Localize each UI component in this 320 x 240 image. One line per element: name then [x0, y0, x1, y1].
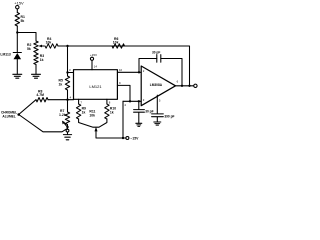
wire to + input — [123, 100, 141, 102]
wiper arrow of R11 — [96, 131, 123, 138]
wire pin 14 — [91, 60, 93, 69]
wire — [16, 26, 18, 52]
wire pin 10 output top — [117, 71, 141, 73]
terminal +15V mid — [90, 57, 93, 60]
resistor R1 — [15, 13, 19, 27]
wire — [123, 137, 126, 139]
wire sensor lower lead — [19, 115, 67, 132]
wire — [16, 59, 18, 74]
node junction inverting input — [138, 71, 140, 73]
resistor R9 — [76, 104, 80, 119]
terminal -15V — [126, 137, 129, 140]
terminal +15V top-left — [16, 6, 19, 9]
svg-text:1k: 1k — [82, 111, 86, 115]
svg-text:10: 10 — [119, 68, 123, 72]
ground — [32, 74, 41, 78]
wiper arrow of R2 — [40, 45, 44, 47]
wire to -15V rail — [122, 101, 124, 138]
diode LM113 — [13, 52, 21, 54]
ground — [154, 122, 161, 125]
resistor R10 — [105, 104, 109, 119]
node junction pin4 — [66, 99, 68, 101]
svg-text:5k: 5k — [21, 19, 25, 23]
wire — [67, 125, 69, 135]
ground — [13, 74, 22, 78]
svg-text:LM113: LM113 — [0, 52, 10, 56]
wire — [17, 33, 36, 42]
svg-text:ALUMEL: ALUMEL — [2, 114, 15, 118]
svg-text:−15V: −15V — [130, 137, 139, 141]
wire feedback top — [112, 46, 190, 86]
resistor R6 — [112, 44, 125, 48]
terminal output — [194, 84, 197, 87]
wire output — [176, 85, 194, 87]
resistor R5 — [65, 76, 69, 90]
svg-text:1k: 1k — [59, 83, 63, 87]
svg-text:10k: 10k — [113, 41, 119, 45]
svg-text:5: 5 — [159, 98, 161, 102]
node A1 junction — [16, 31, 18, 33]
svg-text:9: 9 — [119, 81, 121, 85]
potentiometer R7 — [65, 112, 69, 125]
svg-text:4: 4 — [124, 103, 126, 107]
wire pin 9 output bottom — [117, 85, 130, 101]
wire compensation loop — [139, 59, 182, 86]
svg-text:1k: 1k — [40, 58, 44, 62]
svg-text:LM308A: LM308A — [150, 83, 163, 87]
node junction pin3 — [66, 71, 68, 73]
svg-text:3: 3 — [69, 68, 71, 72]
node sensor junction — [17, 113, 20, 116]
wire pin 7 — [78, 99, 80, 104]
resistor R4 — [45, 44, 58, 48]
wire — [35, 65, 37, 75]
potentiometer R2 — [34, 41, 38, 53]
svg-text:3: 3 — [143, 98, 145, 102]
svg-text:4.7M: 4.7M — [36, 93, 44, 97]
svg-text:2: 2 — [143, 69, 145, 73]
terminal small circle — [66, 129, 69, 132]
node junction cap C1 — [138, 100, 140, 102]
resistor R8 4.7M — [36, 98, 48, 102]
wire — [67, 46, 69, 76]
ground — [63, 135, 71, 140]
node junction -15V rail — [122, 137, 124, 139]
svg-text:30 pF: 30 pF — [152, 50, 160, 54]
op-amp block U1 LM121 — [74, 70, 118, 100]
op-amp U2 LM308A — [141, 66, 175, 106]
wiper arrow of R7 — [64, 122, 68, 127]
wire — [58, 45, 112, 47]
wire — [68, 99, 74, 101]
svg-text:7: 7 — [80, 100, 82, 104]
capacitor C1 — [134, 101, 145, 123]
svg-text:10k: 10k — [89, 113, 95, 117]
svg-text:1.2k: 1.2k — [59, 113, 66, 117]
svg-text:30 pF: 30 pF — [145, 110, 153, 114]
wire gain-set U bottom — [79, 119, 107, 127]
svg-text:10k: 10k — [46, 41, 52, 45]
svg-text:+15V: +15V — [90, 53, 97, 57]
svg-text:6: 6 — [177, 80, 179, 84]
svg-text:+15V: +15V — [14, 1, 24, 6]
svg-text:LM121: LM121 — [89, 84, 102, 89]
wire — [48, 99, 68, 101]
node junction pot bottom — [66, 126, 68, 128]
node A — [66, 45, 68, 47]
svg-text:8: 8 — [109, 100, 111, 104]
svg-text:390 pF: 390 pF — [164, 114, 174, 118]
svg-text:4: 4 — [70, 95, 72, 99]
wire pin 8 — [106, 99, 108, 104]
capacitor C3 390 pF — [152, 114, 164, 122]
wire — [67, 90, 69, 112]
wire — [68, 72, 74, 74]
wire — [16, 9, 18, 13]
node junction — [129, 100, 131, 102]
svg-text:14: 14 — [94, 65, 98, 69]
svg-text:1k: 1k — [110, 111, 114, 115]
ground — [136, 123, 142, 126]
wire pin 5 — [156, 95, 158, 113]
node junction output a — [181, 85, 183, 87]
node junction output b — [188, 85, 190, 87]
capacitor C2 30 pF — [157, 55, 161, 63]
wire sensor upper lead — [19, 100, 36, 115]
resistor R3 — [34, 53, 38, 65]
svg-text:5k: 5k — [27, 47, 31, 51]
